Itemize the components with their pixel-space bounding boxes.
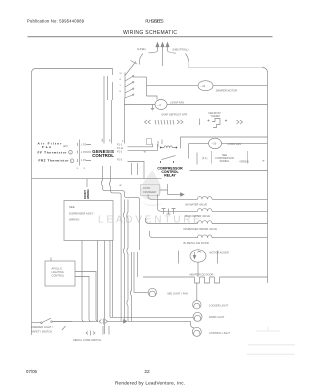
svg-text:FREEZER LIGHT /: FREEZER LIGHT / [31,325,53,329]
genesis left pin ticks [76,143,78,162]
svg-text:1 P3: 1 P3 [81,151,87,154]
lamp 3 filament [194,315,200,320]
switch contact circles [133,76,134,77]
right rail entry curve [263,68,268,73]
svg-text:(LINE): (LINE) [137,47,146,51]
row3 wire dispenser water valve [146,218,268,224]
wire left rail feed y178 [32,178,145,180]
svg-text:RELAY: RELAY [164,174,176,178]
svg-text:WIRING: WIRING [220,159,230,163]
genesis pin wire P1-12 [128,144,158,150]
svg-text:MID LIGHT / FAN: MID LIGHT / FAN [168,291,188,295]
ice door heater row wire [143,276,268,278]
lamp 1 filament [149,291,155,295]
freezer switch contacts [41,322,43,324]
auger motor left lead [178,251,180,264]
wire neutral-side drop [168,51,189,62]
watermark lines bottom right [248,344,295,346]
svg-text:(NEUTRAL): (NEUTRAL) [173,48,189,52]
wire top-left run into left rail [32,69,113,74]
relay contact dots [160,161,174,163]
ice door heater castellated symbol [195,277,223,283]
genesis left connector strip [79,140,81,166]
apollo box right leads [75,272,98,322]
svg-text:EVAP DEFROST HTR: EVAP DEFROST HTR [162,113,188,117]
watermark flame swoosh [141,201,163,206]
svg-text:MOTOR AUGER: MOTOR AUGER [210,250,230,254]
svg-text:≫: ≫ [262,160,265,163]
svg-text:I/M WATER VALVE: I/M WATER VALVE [185,203,207,207]
svg-text:Publication No: 5995440989: Publication No: 5995440989 [27,18,85,23]
temp control switch blade D [125,89,133,93]
auger motor circle [190,250,206,262]
wire bundle vertical 3 [112,241,114,318]
svg-text:DISPENSER WATER VALVE: DISPENSER WATER VALVE [184,227,218,231]
svg-text:FRZ Thermistor: FRZ Thermistor [39,159,70,163]
dashed box left stub [196,153,198,165]
auger motor arrow [195,251,202,258]
svg-text:Fan: Fan [42,145,51,149]
bottom bus wire [52,321,194,327]
svg-text:Rendered by LeadVenture, Inc.: Rendered by LeadVenture, Inc. [115,380,185,385]
row2 inline connector ticks [162,209,176,215]
row2 wire main water valve [158,195,268,212]
bottom stub wires [103,326,109,335]
svg-text:COND FAN: COND FAN [228,142,242,146]
line terminal arrow 1 [157,45,159,51]
wire evap fan feed [124,104,155,106]
svg-text:≪: ≪ [119,184,122,187]
bundle vertical at 137 [137,163,139,277]
auger motor bottom lead [197,262,199,277]
bundle below dispenser box 3 [97,241,99,322]
svg-text:22: 22 [144,369,150,375]
genesis left wires [86,145,91,161]
lamp 3 frz light [193,312,202,321]
arrow to compressor [168,194,181,196]
svg-text:THERM: THERM [211,114,220,118]
svg-text:BI-METAL ICE DOOR: BI-METAL ICE DOOR [184,241,209,245]
svg-text:SERIAL CODE SWITCH: SERIAL CODE SWITCH [73,338,101,342]
genesis pin wire P1-1 [128,144,153,147]
svg-text:WIRING SCHEMATIC: WIRING SCHEMATIC [123,30,177,36]
temp control switch blade C [125,83,133,88]
header rule [28,36,273,38]
bottom arrow [120,320,125,322]
svg-text:WIRING: WIRING [69,217,79,221]
lamp 4 control light [192,327,201,336]
row4 solenoid coil [198,235,213,238]
temp control switch blade E [125,95,133,98]
wire stub to front-wiring connector [86,179,88,187]
defrost heater element [155,120,174,125]
svg-text:CONTROL: CONTROL [92,153,114,158]
wire bundle vertical 1 [101,166,139,250]
svg-text:1 P4: 1 P4 [81,159,87,162]
temp control switch blade A [125,61,137,76]
wire relay to arrow [160,184,168,195]
wire damper to right rail [213,85,268,87]
svg-text:(4 1): (4 1) [202,156,207,160]
line terminal arrow 3 [167,45,169,51]
svg-text:FF Thermistor: FF Thermistor [38,150,68,154]
lamp 3 feed wire [110,316,193,318]
svg-text:DISPENSER ASS'Y: DISPENSER ASS'Y [69,211,94,215]
svg-text:LIGHTING: LIGHTING [52,270,64,274]
bundle vertical at 131 [130,163,131,321]
svg-text:CONTROL LIGHT: CONTROL LIGHT [209,331,230,335]
svg-text:AUTO: AUTO [143,186,150,190]
bundle below dispenser box 2 [104,241,106,335]
freezer safety switch blade [42,318,72,322]
bundle right of dispenser 2 [127,200,128,322]
svg-text:CONTROL: CONTROL [52,274,65,278]
small connector box above genesis [147,139,152,145]
compressor box bottom edge [190,170,268,172]
wire switch bus to evap row [147,96,158,100]
svg-text:CRUSHER: CRUSHER [143,190,156,194]
bundle right of dispenser 1 [123,200,124,322]
svg-text:≪: ≪ [144,151,147,154]
damper motor circle [198,81,213,91]
apollo box top tick [50,258,52,262]
wire bundle vertical 2 [109,166,121,321]
wire cond fan feed [193,142,209,144]
connector double bar left [103,76,105,144]
left rail [31,73,33,335]
cond fan motor circle [209,138,222,148]
svg-text:GREEN: GREEN [240,160,249,164]
defrost thermostat symbol [212,119,220,128]
row3 solenoid coil [198,221,213,224]
svg-text:PLHS269EES: PLHS269EES [145,18,163,23]
compressor feed bracket [189,143,194,158]
svg-text:SEE: SEE [69,205,75,209]
svg-text:1 P2: 1 P2 [81,144,87,147]
lamp 2 filament [194,303,200,307]
dispenser assy box [64,201,113,241]
svg-text:(W): (W) [63,144,68,148]
svg-text:( EVAP FAN: ( EVAP FAN [170,101,184,105]
wire line-side drop [140,51,158,65]
svg-text:SAFETY SWITCH: SAFETY SWITCH [31,330,52,334]
temp control switch blade B [125,77,133,82]
row2 solenoid coil [198,209,213,212]
row1 solenoid coil [198,197,213,200]
thermistor circle 2 [70,159,74,163]
defrost heater left connector [145,120,151,124]
svg-text:LOCKER LIGHT: LOCKER LIGHT [209,303,228,307]
bundle below dispenser box 1 [109,241,111,318]
auger motor right lead [217,251,219,264]
row4 wire ice door solenoid [150,231,268,238]
compressor relay coil [164,146,172,148]
row1 wire I/M water valve [148,195,268,200]
stub below connector [112,82,113,144]
thermistor circle 1 [69,151,73,155]
lamp 4 filament [194,330,200,335]
lamp 2 drop wire [196,283,198,301]
bundle vertical at 134 to lamp1 [133,252,135,293]
watermark flame logo [141,170,162,200]
wire switch contact B to bus [134,76,147,78]
wire heater to therm [199,119,201,126]
apollo lighting control box [45,261,75,286]
wire cond fan to right rail [222,142,268,144]
svg-text:07/05: 07/05 [26,369,38,374]
lamp 1 feed wire [134,292,148,294]
genesis pin wire P1-3 [128,162,162,179]
svg-text:P1-5: P1-5 [117,159,123,162]
defrost heater right connector [177,120,183,124]
connector double bar right [107,76,109,100]
svg-text:MAIN WATER VALVE: MAIN WATER VALVE [185,214,210,218]
defrost thermostat star right [225,120,227,122]
compressor see-wiring dashed box [212,151,248,164]
wire left rail to switch [32,322,41,324]
wire neutral run to right rail [189,62,263,68]
wire evap fan to right rail [167,104,268,106]
svg-text:WIRING: WIRING [86,189,90,199]
svg-text:~ 03: ~ 03 [201,85,206,88]
wire switch bus vertical [146,77,148,96]
defrost therm right connector [237,120,243,124]
bottom connector pair [99,318,108,324]
evap fan ground symbol [151,105,154,111]
svg-text:FRZR LIGHT: FRZR LIGHT [209,315,225,319]
defrost thermostat star left [208,120,210,122]
wire damper feed [147,85,199,87]
auto crusher label box [141,185,160,196]
temp control switch common pole [124,73,127,144]
wire drop to control switch [112,69,114,76]
svg-text:P1-3: P1-3 [117,151,123,154]
lamp 2 locker light [193,301,201,309]
diag tick bottom left [62,326,66,330]
relay coil end dots [160,147,162,149]
bottom connector symbols [86,331,95,336]
svg-text:DAMPER MOTOR: DAMPER MOTOR [216,88,238,92]
line terminal arrow 2 [162,45,164,66]
svg-text:HEATER ICE DOOR: HEATER ICE DOOR [190,272,214,276]
svg-text:~ 00: ~ 00 [212,143,217,146]
bundle below dispenser box 4 [82,241,84,322]
relay coil leads [162,147,176,149]
svg-text:APOLLO: APOLLO [52,267,62,271]
evap fan motor circle [155,100,167,110]
genesis input connector ticks [158,140,162,148]
compressor top bracket wire [181,137,268,149]
right rail [267,73,269,284]
lamp 1 mid light [148,288,156,296]
relay switch blade [162,156,176,160]
